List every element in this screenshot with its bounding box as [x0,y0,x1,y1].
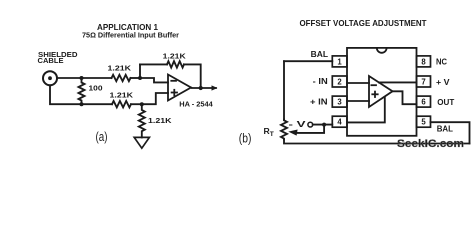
wire pin7 +V to op-amp top slope [379,81,417,83]
ground [134,137,149,148]
wire node C jog into op-amp inverting input [140,78,168,82]
wire feedback right segment and vertical down [184,64,201,88]
output arrowhead [212,85,218,90]
potentiometer RT wiper arrow [296,125,324,133]
wire pin3 to non-inverting input [347,100,369,102]
svg-text:1.21K: 1.21K [110,91,134,100]
resistor R2 1.21K (bottom series) [112,101,131,107]
wire -V terminal to pin 4 [313,124,333,126]
svg-text:8: 8 [421,57,426,66]
svg-text:(b): (b) [239,130,252,145]
IC U2 pin-1 notch [377,48,387,53]
pin 5 box [417,116,431,127]
wire feedback left vertical [139,64,141,78]
pin 2 box [332,76,347,87]
wire R1 to node C [131,77,141,79]
resistor R3 1.21K (to ground) [139,104,145,137]
svg-text:SeekIC.com: SeekIC.com [397,138,464,150]
wire R2 to node D [131,103,142,105]
wire feedback top left segment [140,63,167,65]
connector J1 coax shielded cable [43,71,57,85]
pin 1 box [332,56,347,67]
svg-text:HA - 2544: HA - 2544 [179,100,213,109]
wire left bus down to potentiometer [283,61,285,119]
wire node D jog into op-amp non-inverting input [142,93,168,104]
node F junction dot (wiper tap) [322,123,326,127]
terminal circle -V [308,122,313,127]
wire shield down and right to node B [50,86,82,105]
svg-text:6: 6 [421,98,426,107]
pin 3 box [332,96,347,107]
pin 7 box [417,76,431,87]
svg-text:100: 100 [89,84,103,93]
op-amp U2 internal triangle [369,76,393,107]
resistor R1 1.21K (top series) [112,75,131,81]
op-amp U2 plus sign [372,93,377,95]
potentiometer RT resistive element [281,120,287,140]
svg-text:+ V: + V [436,77,450,87]
svg-text:75Ω Differential Input Buffer: 75Ω Differential Input Buffer [82,30,179,39]
resistor 100 (vertical between rails) [79,78,85,104]
op-amp U1 plus sign [172,92,177,94]
svg-text:(a): (a) [96,129,108,144]
svg-text:5: 5 [421,118,426,127]
node D junction dot [140,102,144,106]
svg-text:1.21K: 1.21K [108,63,132,72]
svg-text:4: 4 [337,118,342,127]
resistor R4 1.21K (feedback) [167,61,184,67]
wire center conductor to node A [58,77,82,79]
node E output junction dot [199,86,203,90]
svg-text:OUT: OUT [437,97,455,107]
wire bottom rail to R2 [82,103,113,105]
svg-text:- IN: - IN [313,76,328,86]
svg-text:2: 2 [337,78,342,87]
wire top rail to R1 [82,77,112,79]
pin 4 box [332,116,347,127]
wire pin4 -V up to op-amp bottom slope [347,97,385,123]
svg-text:1.21K: 1.21K [163,52,187,61]
svg-text:1.21K: 1.21K [148,116,172,125]
pin 8 box [417,56,431,67]
node C junction dot [138,76,142,80]
svg-text:BAL: BAL [437,124,453,134]
pin 6 box [417,96,431,107]
wire op-amp output with arrow [191,87,216,90]
svg-text:+ IN: + IN [310,96,328,106]
svg-text:3: 3 [337,98,342,107]
svg-text:CABLE: CABLE [38,56,64,65]
op-amp U1 triangle [168,75,191,101]
IC U2 DIP-8 body [347,48,417,136]
node B junction dot [80,102,84,106]
wire right bus up to pin5 [431,122,470,143]
wire op-amp output to pin6 [393,91,417,104]
wire pin1 BAL to left bus [284,60,332,62]
svg-text:7: 7 [421,78,425,87]
svg-text:T: T [270,131,274,138]
svg-text:BAL: BAL [311,49,328,59]
svg-text:NC: NC [436,56,447,66]
svg-text:OFFSET VOLTAGE ADJUSTMENT: OFFSET VOLTAGE ADJUSTMENT [300,18,428,28]
wire pot bottom to bottom rail [284,140,470,144]
op-amp U2 minus sign [371,84,376,86]
op-amp U1 minus sign [171,80,176,82]
svg-text:- V: - V [289,119,307,129]
node A junction dot [80,76,84,80]
svg-text:1: 1 [337,57,342,66]
wire pin2 to inverting input [347,82,369,84]
